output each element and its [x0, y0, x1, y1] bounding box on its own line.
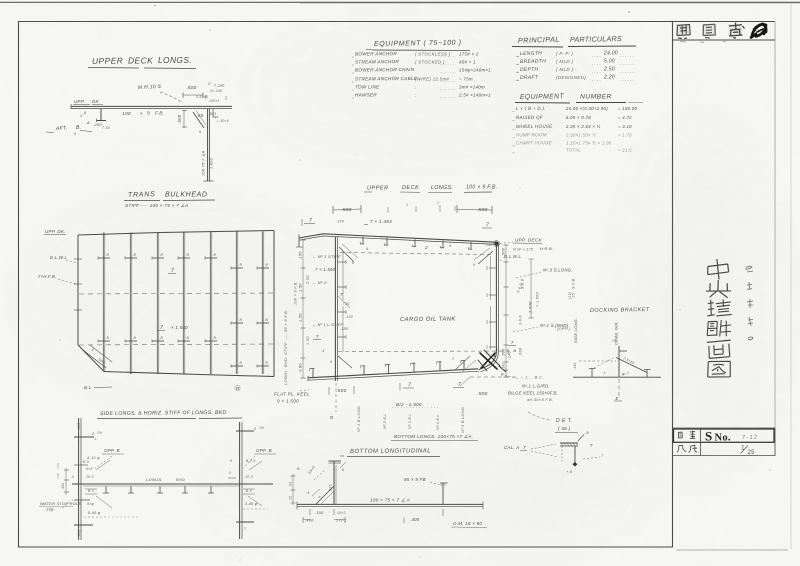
svg-text:B.: B. [76, 125, 81, 131]
svg-text:2: 2 [91, 432, 95, 436]
horizontal stiffener line [72, 478, 273, 486]
svg-text:SIDE LONG.: SIDE LONG. [573, 318, 578, 343]
japanese title: ou (centre) character [706, 280, 732, 298]
table: EQUIPMENT (75~100) [352, 39, 491, 98]
svg-text:DECK: DECK [128, 56, 153, 66]
svg-text:PRINCIPAL: PRINCIPAL [518, 35, 560, 45]
svg-text:LONGS.: LONGS. [431, 185, 453, 191]
svg-text:UPPER: UPPER [92, 55, 124, 66]
svg-text:7: 7 [486, 223, 489, 229]
svg-text:OPP. B: OPP. B [256, 448, 272, 453]
svg-text:Nº.1 B.LONG: Nº.1 B.LONG [357, 406, 361, 432]
svg-text:Nº.3 B.L: Nº.3 B.L [408, 413, 412, 429]
title block kanji: ship number [678, 431, 695, 439]
svg-text:UPPER: UPPER [367, 186, 389, 192]
label M.H.10 S with leader [138, 84, 183, 103]
svg-text:B/2 - 2.500: B/2 - 2.500 [396, 402, 422, 407]
bulkhead corner bracket (lower left) [83, 345, 112, 368]
title block outer box [673, 428, 776, 456]
svg-text:STIFF ---- 100 × 75 × 7 ∠A: STIFF ---- 100 × 75 × 7 ∠A [125, 203, 188, 208]
girder web label 100x75x7 [202, 150, 214, 176]
baseline dashed extension [470, 373, 518, 378]
svg-text:BHD: BHD [176, 478, 185, 482]
stamp smudges under box [680, 41, 726, 44]
stamp box [673, 22, 776, 43]
svg-text:2.20: 2.20 [603, 75, 615, 81]
svg-text:B.3: B.3 [88, 489, 94, 493]
docking bracket girder web [612, 321, 627, 377]
svg-text:1: 1 [437, 201, 439, 205]
docking bracket slope and clips [573, 356, 651, 377]
title: UPPER DECK LONGS. [88, 55, 196, 69]
svg-text:9: 9 [514, 349, 516, 353]
svg-text:D.L.W.L.: D.L.W.L. [504, 254, 523, 259]
svg-text:7: 7 [511, 340, 514, 345]
stamp character 2 [702, 24, 716, 38]
svg-text:1": 1" [208, 82, 212, 86]
svg-text:7 × 1.483: 7 × 1.483 [370, 219, 392, 224]
svg-text:4.90: 4.90 [298, 363, 303, 372]
label BOTTOM LONGS 100x75x7 [391, 434, 478, 441]
svg-text:SIDE LONGS. & HORIZ. STIFF: SIDE LONGS. & HORIZ. STIFF OF LONGS. BKD [100, 410, 227, 417]
bulkhead stiffener clips [98, 253, 269, 368]
svg-text:K: K [352, 261, 355, 265]
svg-text:9×φ: 9×φ [87, 502, 94, 506]
cargo oil tank label [400, 317, 456, 323]
svg-text:Nº.2 B.L: Nº.2 B.L [383, 413, 387, 429]
svg-text:UPP.: UPP. [74, 99, 85, 104]
stamp character 3 [728, 23, 745, 39]
svg-text:FLAT PL. KEEL: FLAT PL. KEEL [274, 392, 310, 397]
side shell (section) [479, 243, 499, 372]
svg-text:OPP. B: OPP. B [104, 448, 120, 453]
svg-text:= 1.73: = 1.73 [618, 133, 632, 138]
svg-text:.500: .500 [502, 348, 506, 357]
water stop hole label [39, 500, 81, 512]
svg-text:7: 7 [408, 383, 411, 389]
dims below baseline [303, 509, 487, 528]
svg-text:240: 240 [485, 243, 493, 247]
svg-text:.9: .9 [585, 431, 589, 435]
left stiffener labels NO.1 NO.2 [312, 254, 353, 353]
svg-text:BULKHEAD: BULKHEAD [165, 192, 208, 199]
svg-text:.300: .300 [336, 220, 344, 224]
svg-text:145: 145 [210, 112, 216, 116]
vertical label LONGL. BHD. STIFF. [283, 281, 298, 385]
svg-text:2.50: 2.50 [603, 67, 615, 73]
svg-text:.180: .180 [502, 362, 506, 370]
svg-text:1: 1 [406, 203, 408, 207]
small deck longitudinal stiffener [80, 109, 110, 130]
svg-text:.140: .140 [573, 362, 577, 370]
svg-text:9: 9 [330, 360, 332, 364]
bilge corner marks [452, 356, 476, 386]
svg-text:.500: .500 [341, 207, 352, 213]
left dim chain (section) [298, 240, 311, 378]
svg-text:A: A [86, 121, 90, 125]
svg-text:9: 9 [199, 130, 201, 134]
svg-text:WATER STOP HOLE: WATER STOP HOLE [40, 501, 81, 506]
svg-text:= 180.00: = 180.00 [618, 106, 638, 111]
svg-text:UPP. DK.: UPP. DK. [45, 229, 66, 234]
title: TRANS BULKHEAD [124, 191, 215, 208]
svg-text:= 4.72: = 4.72 [618, 115, 632, 120]
svg-text:1": 1" [80, 114, 84, 118]
inner tank stiffener marks left [330, 296, 352, 368]
svg-text:.9: .9 [71, 475, 74, 479]
svg-text:.600: .600 [519, 348, 523, 356]
svg-text:.150: .150 [56, 463, 60, 470]
right side labels [500, 238, 573, 403]
title block scale value 1/25 [741, 445, 756, 457]
svg-text:100·75·7 ∠A: 100·75·7 ∠A [202, 150, 206, 176]
svg-text:100 × 9 F.B.: 100 × 9 F.B. [466, 185, 497, 191]
below-bottom labels (section) [274, 382, 488, 420]
svg-text:LONGS.: LONGS. [158, 55, 192, 65]
detail 36 drawing [560, 431, 604, 474]
svg-text:9: 9 [449, 244, 451, 248]
bottom longitudinals [310, 361, 466, 378]
svg-text:15: 15 [612, 339, 616, 343]
svg-text:7.50: 7.50 [102, 126, 110, 130]
svg-text:.150: .150 [340, 327, 348, 331]
svg-text:1½: 1½ [259, 426, 264, 430]
svg-text:← Nº 1 STIFF: ← Nº 1 STIFF [312, 254, 341, 259]
label UPP. DK. [73, 99, 103, 105]
svg-text:.300: .300 [61, 483, 65, 490]
label DET (36) [528, 412, 578, 433]
svg-text:Nº.4 B.L: Nº.4 B.L [436, 414, 440, 430]
bulkhead flange line [338, 252, 347, 352]
label CAL A 7 with leader [504, 444, 558, 457]
svg-text:= 21.5: = 21.5 [618, 148, 632, 153]
japanese title: yoko (horizontal) character [707, 299, 732, 316]
svg-text:9: 9 [74, 132, 76, 136]
dim marks left of horizontal line [56, 463, 60, 480]
svg-text:.150: .150 [77, 423, 81, 430]
svg-text:N.W ×.175: N.W ×.175 [513, 248, 534, 252]
svg-text:9 × 1.500: 9 × 1.500 [277, 399, 299, 404]
bulkhead plate outline [78, 231, 274, 377]
side long labels near bracket [557, 292, 578, 343]
bottom longitudinal number labels (vertical) [357, 406, 465, 433]
bottom longitudinal bracket [306, 465, 334, 504]
stamp character 1 [676, 24, 691, 39]
sheer strake corner dot [485, 241, 500, 248]
bottom longitudinal small stiffener [404, 477, 448, 504]
docking bracket centreline [614, 379, 622, 401]
table: PRINCIPAL PARTICULARS [512, 34, 636, 81]
dim .500 top [183, 85, 203, 98]
svg-text:← 1 ... B.C.: ← 1 ... B.C. [520, 376, 543, 380]
svg-text:(OPP.): (OPP.) [557, 326, 571, 331]
bottom longitudinal baseline [297, 502, 483, 510]
bulkhead labels [38, 229, 240, 391]
deck corner brackets [339, 244, 493, 267]
title: BOTTOM LONGITUDINAL [340, 448, 440, 456]
svg-text:5-40 φ: 5-40 φ [88, 511, 101, 515]
svg-text:LONGS: LONGS [146, 478, 162, 482]
svg-text:2.30×1.50× ½: 2.30×1.50× ½ [565, 133, 596, 138]
japanese title: dan (cut) character [707, 320, 731, 337]
dim cluster left of bottom longitudinal [289, 467, 302, 505]
japanese title: men (face) character [707, 340, 732, 358]
svg-text:F.B.: F.B. [155, 110, 164, 116]
svg-text:9: 9 [230, 459, 232, 463]
svg-text:= 3.10: = 3.10 [618, 124, 632, 129]
svg-text:×: × [140, 111, 143, 116]
svg-text:(15): (15) [568, 292, 572, 299]
svg-text:7-12: 7-12 [742, 434, 759, 441]
svg-text:7.240: 7.240 [214, 84, 225, 88]
svg-text:1.15×1.75× ½ × 1.00: 1.15×1.75× ½ × 1.00 [566, 141, 612, 146]
svg-text:15φ: 15φ [46, 507, 54, 512]
svg-text:1½: 1½ [97, 431, 102, 435]
svg-text:7: 7 [590, 443, 593, 448]
title block kanji: scale [677, 445, 697, 453]
svg-text:24.00: 24.00 [603, 51, 618, 57]
svg-text:( P. P. ): ( P. P. ) [556, 51, 573, 56]
svg-text:B.: B. [501, 373, 505, 377]
title: DOCKING BRACKET [590, 307, 650, 314]
deck plating line (detail A) [71, 104, 232, 109]
svg-text:.240: .240 [508, 351, 512, 359]
svg-text:DK.: DK. [92, 99, 100, 104]
svg-text:B.L.: B.L. [84, 385, 93, 390]
svg-text:3×.240: 3×.240 [210, 89, 222, 93]
dim row above deck [302, 201, 492, 229]
svg-text:10.5: 10.5 [86, 475, 94, 479]
dim 7.240 small [206, 82, 226, 100]
dim .500 vertical at girder [177, 110, 187, 128]
floor dashed line [338, 348, 516, 354]
svg-text:φ 7: φ 7 [622, 371, 629, 376]
bilge keel cross [478, 350, 506, 372]
svg-text:L: L [95, 437, 97, 441]
svg-text:NUMBER: NUMBER [580, 94, 612, 101]
svg-text:L.50×9: L.50×9 [217, 119, 229, 123]
japanese title: naka (middle) character [707, 258, 729, 280]
left member detail marks [61, 431, 139, 534]
table: EQUIPMENT NUMBER [512, 93, 643, 153]
deck girder tee (web + bracket) [193, 95, 229, 181]
svg-text:DECK: DECK [402, 185, 419, 191]
svg-text:9×5: 9×5 [86, 467, 93, 471]
bulkhead vertical stiffeners [103, 232, 263, 375]
svg-text:PARTICULARS: PARTICULARS [570, 34, 622, 44]
deck plating (section) [296, 234, 496, 247]
longitudinal bulkhead (section) [335, 237, 337, 381]
svg-text:.730: .730 [341, 302, 350, 306]
small handwritten annotation column [745, 266, 753, 340]
label 100 x 9 F.B. [122, 110, 164, 117]
svg-text:.500: .500 [477, 391, 488, 397]
label AFT. B [46, 125, 92, 136]
svg-text:BILGE KEEL 150×9F.B.: BILGE KEEL 150×9F.B. [508, 391, 558, 396]
svg-text:( 36 ): ( 36 ) [558, 426, 571, 431]
svg-text:4: 4 [322, 349, 324, 353]
svg-text:5.00: 5.00 [604, 59, 615, 65]
svg-text:K: K [473, 263, 476, 267]
japanese title: zu (drawing) character [708, 361, 731, 378]
svg-text:25: 25 [748, 450, 756, 456]
svg-text:7: 7 [458, 382, 461, 388]
svg-text:7: 7 [309, 218, 312, 224]
svg-text:UPP. DECK: UPP. DECK [515, 238, 543, 243]
svg-text:× 1.500: × 1.500 [536, 292, 540, 307]
bottom shell (section) [308, 369, 479, 381]
stamp character 4 (dark scribble) [751, 24, 766, 38]
svg-text:.150: .150 [345, 315, 353, 319]
svg-text:9: 9 [147, 111, 150, 117]
svg-text:Nº.1 L.GIRD.: Nº.1 L.GIRD. [522, 384, 550, 389]
title: UPPER DECK LONGS 100x9 FB (section) [364, 185, 497, 193]
svg-text:TRANS: TRANS [128, 191, 156, 199]
svg-text:2.35 × 2.64 × ½: 2.35 × 2.64 × ½ [565, 124, 601, 129]
svg-text:CARGO OIL TANK: CARGO OIL TANK [400, 317, 456, 323]
svg-text:M.H.10 S: M.H.10 S [138, 84, 162, 91]
svg-text:.500: .500 [336, 388, 347, 394]
svg-text:.500: .500 [186, 85, 197, 91]
docking bracket baseline [573, 376, 661, 378]
side shell flange line [487, 256, 497, 350]
svg-text:R.: R. [330, 415, 335, 420]
svg-text:B.D: B.D [83, 460, 90, 464]
svg-text:100: 100 [122, 111, 131, 117]
svg-text:7: 7 [340, 292, 343, 297]
svg-text:2: 2 [253, 427, 257, 431]
svg-text:.500: .500 [177, 114, 182, 124]
svg-text:Nº.3 S.LONG.: Nº.3 S.LONG. [543, 268, 573, 273]
deck longitudinals under deck [360, 237, 472, 251]
bulkhead stringer dashed lines [79, 293, 273, 345]
svg-text:65: 65 [198, 113, 204, 118]
svg-text:Nº.5 B.LONG: Nº.5 B.LONG [461, 407, 465, 433]
svg-text:E: E [616, 396, 619, 401]
svg-text:H.R.B.: H.R.B. [540, 246, 553, 251]
label 100x75x7 A [370, 498, 410, 503]
title block S No text [705, 429, 758, 444]
left bulkhead member [77, 418, 81, 540]
svg-text:.150: .150 [56, 473, 60, 480]
svg-text:D E T.: D E T. [556, 418, 573, 424]
svg-text:6.05 × 0.78: 6.05 × 0.78 [566, 115, 591, 120]
svg-text:CHART HOUSE: CHART HOUSE [516, 140, 553, 145]
right bulkhead member [240, 422, 242, 539]
svg-text:2: 2 [424, 245, 428, 250]
svg-text:2.200: 2.200 [528, 301, 533, 314]
svg-text:190×3: 190×3 [209, 99, 219, 103]
right dim chain (section) [502, 245, 576, 377]
svg-text:att 30×6 F.B.: att 30×6 F.B. [527, 397, 553, 402]
svg-text:3-6.0: 3-6.0 [519, 315, 523, 325]
svg-text:AFT.: AFT. [55, 125, 68, 132]
bottom longitudinal web [329, 461, 347, 504]
deck transverse dashed [340, 253, 494, 255]
svg-text:7: 7 [80, 530, 82, 534]
svg-text:1.800: 1.800 [210, 157, 214, 169]
title: SIDE LONGS & HORIZ STIFF OF LONGS BKD [97, 410, 242, 419]
svg-text:TOTAL: TOTAL [566, 148, 581, 153]
stiffener clips on horizontal [103, 486, 214, 493]
right member detail marks [228, 426, 276, 531]
svg-text:7: 7 [244, 527, 246, 531]
svg-text:3.5×90: 3.5×90 [196, 95, 208, 99]
